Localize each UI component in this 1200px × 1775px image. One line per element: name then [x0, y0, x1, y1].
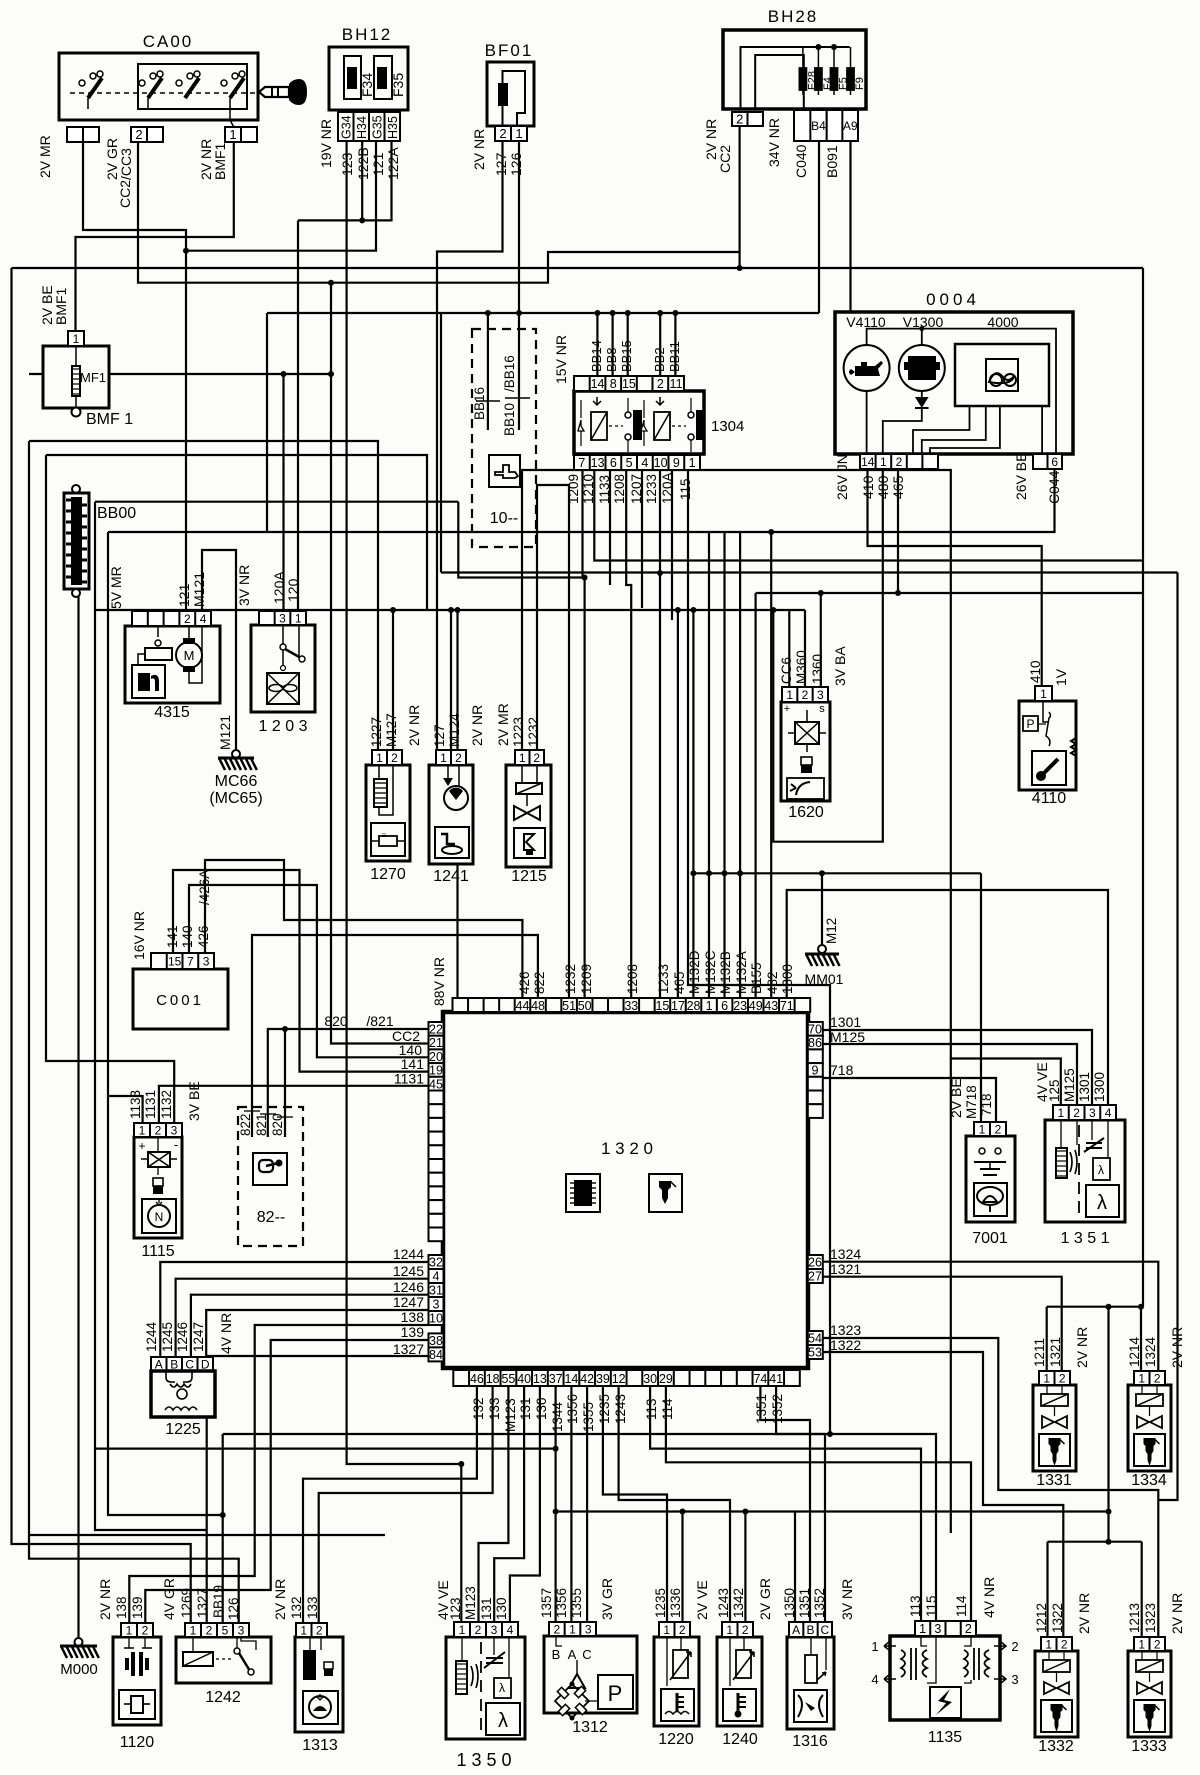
- wire ground bus MM01: [693, 872, 981, 874]
- svg-text:M132C: M132C: [703, 950, 718, 994]
- wire 133 to 1313 pin2: [319, 1386, 493, 1623]
- svg-text:1301: 1301: [1077, 1072, 1092, 1102]
- 1203 fan icon: [267, 673, 299, 704]
- wire 1304 top pin feed: [627, 313, 629, 376]
- key icon: [253, 1153, 287, 1185]
- svg-text:1: 1: [726, 1623, 733, 1637]
- wire 426 C001 to ECU pin44: [205, 860, 522, 998]
- svg-text:M121: M121: [217, 715, 233, 750]
- svg-text:132: 132: [289, 1596, 304, 1619]
- svg-text:71: 71: [780, 999, 794, 1013]
- svg-text:30: 30: [643, 1372, 657, 1386]
- wire M132A riser: [739, 532, 741, 998]
- wire 130 to 1350 pin4: [510, 1386, 540, 1622]
- svg-text:126: 126: [226, 1597, 241, 1620]
- wire drop to ECU top: [456, 610, 458, 998]
- svg-text:821: 821: [254, 1113, 269, 1136]
- wire 1209 line west: [95, 501, 458, 503]
- svg-text:718: 718: [979, 1093, 994, 1116]
- svg-text:1115: 1115: [141, 1243, 174, 1260]
- svg-text:4315: 4315: [154, 704, 190, 721]
- svg-text:A: A: [568, 1647, 577, 1662]
- instrument cluster 0004: [835, 312, 1073, 454]
- svg-text:39: 39: [596, 1372, 610, 1386]
- wire rail x29 to 1242 pin3 (126): [29, 441, 239, 1623]
- svg-text:2V NR: 2V NR: [1169, 1327, 1185, 1368]
- svg-text:120: 120: [285, 578, 301, 602]
- relay 1242: [176, 1637, 271, 1683]
- wire M124 1241 pin2 up: [450, 610, 452, 750]
- 1620 battery icon: [801, 757, 812, 765]
- svg-text:21: 21: [429, 1036, 443, 1050]
- connector icon: [489, 455, 520, 487]
- svg-text:51: 51: [562, 999, 576, 1013]
- svg-text:410: 410: [1028, 660, 1043, 683]
- svg-text:86: 86: [808, 1036, 822, 1050]
- svg-text:1336: 1336: [668, 1588, 683, 1618]
- svg-text:1352: 1352: [812, 1588, 827, 1618]
- svg-text:1334: 1334: [1131, 1472, 1167, 1489]
- 1241 oil icon: [435, 827, 469, 858]
- svg-text:1357: 1357: [539, 1588, 554, 1618]
- wire 120A 1203 pin3 up: [282, 374, 284, 611]
- svg-text:1244: 1244: [144, 1321, 159, 1352]
- svg-text:M123: M123: [463, 1586, 478, 1620]
- svg-text:7: 7: [578, 456, 585, 470]
- svg-text:126: 126: [508, 152, 524, 176]
- wire 465 riser ECU pin17: [677, 610, 679, 998]
- svg-text:27: 27: [808, 1270, 822, 1284]
- svg-text:H34: H34: [355, 116, 369, 139]
- svg-text:1: 1: [376, 751, 383, 765]
- wire 1342 1240 pin2 to bus: [744, 1512, 746, 1623]
- svg-text:BMF1: BMF1: [53, 287, 69, 325]
- 1304 bottom pin row: [574, 455, 700, 470]
- CA00 internal switches: [88, 78, 102, 98]
- 4110 P box: [1023, 716, 1038, 731]
- svg-text:BF01: BF01: [485, 41, 534, 60]
- svg-text:17: 17: [671, 999, 685, 1013]
- svg-text:1242: 1242: [205, 1689, 241, 1706]
- svg-text:1 3 2 0: 1 3 2 0: [601, 1139, 653, 1158]
- svg-text:139: 139: [401, 1324, 425, 1340]
- svg-text:2: 2: [965, 1622, 972, 1636]
- svg-text:480: 480: [875, 475, 891, 499]
- 4110 temp icon: [1032, 751, 1066, 785]
- svg-text:141: 141: [165, 925, 180, 948]
- svg-text:F35: F35: [390, 73, 406, 97]
- svg-text:1324: 1324: [1143, 1336, 1158, 1367]
- svg-text:4: 4: [200, 612, 207, 626]
- svg-text:1: 1: [1040, 687, 1047, 701]
- svg-text:1209: 1209: [579, 964, 594, 994]
- svg-text:A: A: [155, 1357, 163, 1371]
- wire 1233 from 1304 pin10: [659, 469, 661, 573]
- svg-text:9: 9: [673, 456, 680, 470]
- wire 139 ECU pin38 to 1120 pin2: [145, 1340, 428, 1623]
- svg-text:1316: 1316: [792, 1733, 828, 1750]
- svg-text:84: 84: [429, 1348, 443, 1362]
- svg-text:1321: 1321: [1048, 1337, 1063, 1367]
- svg-text:1: 1: [880, 455, 887, 469]
- wire rail x108 to 1242 pin5 (BB19): [108, 532, 223, 1623]
- 1241 diode: [443, 778, 453, 786]
- wire 1355 to 1312 pin3: [586, 1386, 588, 1622]
- 1135 transformer right: [964, 1650, 968, 1677]
- svg-text:3: 3: [1011, 1672, 1018, 1687]
- 1215 valve bowtie: [514, 806, 540, 820]
- svg-text:1233: 1233: [644, 474, 659, 504]
- svg-text:54: 54: [808, 1332, 822, 1346]
- svg-text:140: 140: [180, 925, 195, 948]
- svg-text:2: 2: [316, 1623, 323, 1637]
- svg-text:822: 822: [238, 1113, 253, 1136]
- fuse box BH28: [723, 30, 866, 109]
- svg-text:718: 718: [830, 1062, 854, 1078]
- wire B155 riser ECU pin49: [754, 593, 756, 998]
- svg-text:115: 115: [678, 478, 693, 500]
- svg-text:13: 13: [591, 456, 605, 470]
- wire 115 from 1304 pin1: [688, 469, 830, 1434]
- ground MM01 (M12): [818, 945, 826, 953]
- wire 1327 column to 1242 pin2: [206, 1356, 208, 1623]
- svg-text:1133: 1133: [128, 1090, 143, 1119]
- svg-text:1132: 1132: [159, 1090, 174, 1119]
- wire injector bus2: [1048, 1541, 1142, 1543]
- svg-text:1207: 1207: [629, 474, 644, 504]
- svg-text:1327: 1327: [195, 1588, 210, 1618]
- svg-text:115: 115: [924, 1595, 939, 1617]
- svg-text:M12: M12: [824, 918, 839, 944]
- svg-text:465: 465: [672, 971, 687, 994]
- injector 1331: [1033, 1385, 1076, 1471]
- svg-text:C040: C040: [793, 144, 809, 178]
- svg-text:4000: 4000: [987, 314, 1018, 330]
- 1220 icon coolant temp: [661, 1689, 694, 1721]
- svg-text:2: 2: [736, 112, 743, 127]
- svg-text:BB00: BB00: [97, 505, 136, 522]
- svg-text:131: 131: [518, 1397, 533, 1420]
- svg-text:133: 133: [487, 1397, 502, 1420]
- svg-text:BB15: BB15: [619, 340, 634, 372]
- 1312 P box: [598, 1675, 633, 1709]
- wire /821 ECU pin22: [268, 1029, 429, 1137]
- svg-text:1133: 1133: [597, 475, 612, 504]
- wire 465 down: [897, 469, 899, 593]
- svg-text:131: 131: [479, 1597, 494, 1620]
- wire y1535: [29, 1534, 385, 1536]
- svg-text:BB10: BB10: [502, 403, 517, 436]
- svg-text:40: 40: [517, 1372, 531, 1386]
- wire M132C riser: [708, 532, 710, 998]
- svg-text:5V MR: 5V MR: [108, 566, 124, 609]
- gauge icon: [986, 359, 1018, 391]
- svg-text:2V NR: 2V NR: [469, 705, 485, 746]
- svg-text:70: 70: [808, 1023, 822, 1037]
- wire 1300 ECU pin71 to 1351 pin4: [787, 890, 1108, 1105]
- svg-text:3: 3: [279, 611, 286, 625]
- 0004 pin row 6: [1033, 454, 1062, 469]
- svg-text:465: 465: [890, 475, 906, 499]
- wire CA00 pin1 to MF1 (2V NR BMF1): [76, 142, 234, 331]
- svg-text:6: 6: [1051, 455, 1058, 469]
- wire to 1332 pin1: [1046, 1542, 1048, 1651]
- svg-text:MF1: MF1: [80, 370, 106, 385]
- wire sensor bus y1511: [557, 1510, 1109, 1512]
- svg-text:16V NR: 16V NR: [131, 911, 147, 960]
- svg-text:BB16: BB16: [472, 387, 487, 420]
- diagnostic socket 7001: [966, 1136, 1015, 1222]
- 1215 icon: [514, 828, 545, 858]
- svg-text:3V NR: 3V NR: [839, 1579, 855, 1620]
- wire link y313-y532: [266, 313, 268, 532]
- wire 1246 to 1225 C: [191, 1295, 429, 1357]
- 1241 pump circle: [444, 786, 468, 810]
- 1351 heater: [1056, 1148, 1067, 1178]
- fuse box BF01: [487, 62, 534, 126]
- wire to 1334 pin1: [1140, 1307, 1142, 1371]
- svg-text:M000: M000: [60, 1661, 98, 1678]
- svg-text:1323: 1323: [830, 1322, 861, 1338]
- svg-text:3: 3: [585, 1622, 592, 1636]
- double relay 1304: [574, 391, 704, 454]
- svg-text:1220: 1220: [658, 1731, 694, 1748]
- 1135 spark icon: [930, 1687, 961, 1718]
- 4315 pin row 2 4: [132, 611, 211, 626]
- wire 822 ECU pin48 to 82-- box: [252, 935, 538, 1137]
- coolant temp sensor 1220: [654, 1637, 699, 1726]
- 1115 valve: [148, 1152, 170, 1167]
- wire M360 riser: [804, 610, 806, 687]
- wire 1304 top pin feed: [611, 313, 613, 376]
- svg-text:1135: 1135: [928, 1729, 963, 1746]
- svg-text:3: 3: [171, 1123, 178, 1137]
- svg-text:1241: 1241: [433, 868, 469, 885]
- svg-text:1 3 5 0: 1 3 5 0: [456, 1750, 511, 1770]
- wire 1207 stub: [641, 469, 643, 608]
- svg-text:1351: 1351: [754, 1394, 769, 1424]
- svg-text:15V NR: 15V NR: [553, 335, 569, 384]
- svg-text:G35: G35: [371, 115, 385, 139]
- svg-text:50: 50: [578, 999, 592, 1013]
- idle actuator 1115: [134, 1137, 182, 1238]
- svg-text:1244: 1244: [393, 1246, 424, 1262]
- svg-text:1: 1: [706, 999, 713, 1013]
- svg-text:19V NR: 19V NR: [318, 119, 334, 168]
- svg-text:1233: 1233: [656, 964, 671, 994]
- BF01 fuse loop: [503, 71, 526, 126]
- svg-text:113: 113: [908, 1595, 923, 1617]
- svg-text:1: 1: [229, 127, 236, 142]
- svg-text:BB8: BB8: [604, 347, 619, 372]
- svg-text:29: 29: [659, 1372, 673, 1386]
- svg-text:2V GR: 2V GR: [757, 1578, 773, 1620]
- 1304 top pin row: [574, 376, 684, 391]
- svg-text:1235: 1235: [653, 1588, 668, 1618]
- svg-text:1V: 1V: [1053, 668, 1069, 686]
- wire 114 to 1135 pin2: [666, 1386, 971, 1621]
- wire 1350 1316 A to bus: [794, 1512, 796, 1623]
- 4315 motor M: [176, 642, 202, 668]
- svg-text:1: 1: [1138, 1637, 1145, 1651]
- wire 1336 1220 pin2 to bus: [681, 1512, 683, 1623]
- wire 1356 to 1312 pin1: [570, 1386, 572, 1622]
- svg-text:1208: 1208: [625, 964, 640, 994]
- svg-text:1: 1: [871, 1639, 878, 1654]
- wire M125 ECU pin86 to 1351 pin2: [823, 1044, 1077, 1105]
- 7001 gauge icon: [974, 1183, 1007, 1216]
- svg-text:2: 2: [742, 1623, 749, 1637]
- svg-text:B155: B155: [749, 962, 764, 994]
- 0004 internal wiring: [867, 329, 1056, 454]
- svg-text:130: 130: [494, 1597, 509, 1620]
- wire 1352 ECU pin41 to 1316 C: [776, 1386, 825, 1622]
- svg-text:426: 426: [196, 925, 211, 948]
- svg-text:1356: 1356: [554, 1588, 569, 1618]
- svg-text:1327: 1327: [393, 1341, 424, 1357]
- svg-text:MM01: MM01: [805, 971, 844, 987]
- svg-text:2: 2: [499, 126, 506, 141]
- svg-text:3: 3: [817, 688, 824, 702]
- svg-text:482: 482: [765, 971, 780, 994]
- wire 820: [284, 1029, 286, 1137]
- wire 1235 to 1220 pin1: [603, 1386, 667, 1622]
- wire M132B riser: [723, 532, 725, 998]
- solenoid valve 1215: [506, 765, 551, 867]
- svg-text:11: 11: [670, 377, 683, 391]
- svg-text:49: 49: [749, 999, 763, 1013]
- svg-text:15: 15: [622, 377, 636, 391]
- svg-text:132: 132: [471, 1397, 486, 1420]
- svg-text:2V NR: 2V NR: [471, 129, 487, 170]
- fuse F34: [344, 56, 361, 99]
- BH28 internal bus: [741, 47, 850, 109]
- svg-text:1620: 1620: [788, 804, 824, 821]
- node BMF1: [72, 408, 81, 417]
- wire 482 ECU pin43 up: [770, 532, 772, 998]
- 1270 resistor icon: [371, 823, 405, 856]
- svg-text:P: P: [608, 1681, 623, 1706]
- wire BB00 to M000: [77, 593, 79, 1638]
- relay 1203: [251, 625, 315, 712]
- svg-text:/821: /821: [366, 1013, 393, 1029]
- wire BB19 column up: [222, 1434, 224, 1515]
- svg-text:1: 1: [459, 1623, 466, 1637]
- wire 718 ECU pin9 to 7001 pin2: [823, 1078, 996, 1122]
- svg-text:123: 123: [448, 1597, 463, 1620]
- wire 125 to 1351 pin1: [951, 1059, 1061, 1106]
- svg-text:113: 113: [644, 1398, 659, 1420]
- wire CC2 CA00 staircase: [138, 142, 740, 283]
- wire 120 from y220 to 1203 pin1: [297, 220, 299, 611]
- 1350 lambda icon: [486, 1703, 520, 1735]
- svg-text:2: 2: [995, 1122, 1002, 1136]
- svg-text:1332: 1332: [1038, 1738, 1074, 1755]
- svg-text:74: 74: [753, 1372, 767, 1386]
- svg-text:≡: ≡: [382, 831, 387, 840]
- svg-text:B: B: [806, 1623, 814, 1637]
- wire 1244 ECU pin32 to 1225 A: [160, 1262, 428, 1357]
- svg-text:43: 43: [764, 999, 778, 1013]
- svg-text:A9: A9: [843, 119, 858, 133]
- throttle housing 1350: [446, 1637, 525, 1739]
- wire 138 ECU pin10 to 1120 pin1: [129, 1325, 428, 1623]
- svg-text:38: 38: [429, 1334, 443, 1348]
- svg-text:121: 121: [176, 583, 192, 607]
- ECU bottom pin row: [453, 1370, 800, 1386]
- svg-text:1269: 1269: [179, 1588, 194, 1618]
- ECU 1320: [443, 1012, 808, 1368]
- knock sensor 1316: [787, 1637, 834, 1729]
- svg-text:121: 121: [370, 152, 386, 176]
- A/C unit 1620: [781, 702, 830, 801]
- svg-text:1323: 1323: [1143, 1603, 1158, 1633]
- canister purge valve 1313: [295, 1637, 343, 1732]
- svg-text:1 3 5 1: 1 3 5 1: [1061, 1230, 1110, 1247]
- svg-text:1246: 1246: [175, 1322, 190, 1352]
- wire injector bus1: [1047, 1306, 1143, 1308]
- injector 1334: [1128, 1385, 1171, 1471]
- wire 1322 ECU pin53 to 1332 pin2: [823, 1352, 1064, 1651]
- wire 1209 riser ECU pin50: [583, 578, 585, 999]
- svg-text:45: 45: [429, 1077, 443, 1091]
- svg-text:V4110: V4110: [846, 314, 886, 330]
- svg-text:1313: 1313: [302, 1737, 338, 1754]
- 1220 thermistor: [673, 1650, 688, 1678]
- ignition key icon: [259, 87, 289, 97]
- svg-text:3: 3: [1089, 1106, 1096, 1120]
- svg-text:λ: λ: [1098, 1163, 1104, 1177]
- wire 120A down: [671, 469, 673, 620]
- svg-text:1: 1: [689, 456, 696, 470]
- svg-text:/BB16: /BB16: [502, 355, 517, 392]
- wire to 1333 pin1: [1141, 1542, 1143, 1651]
- svg-text:M718: M718: [964, 1085, 979, 1119]
- svg-text:1351: 1351: [797, 1588, 812, 1618]
- svg-text:1223: 1223: [511, 717, 526, 747]
- svg-text:C: C: [820, 1623, 829, 1637]
- fuse box BH12: [329, 47, 408, 110]
- svg-text:+: +: [138, 1139, 145, 1153]
- 4110 sawtooth: [1071, 738, 1076, 756]
- svg-text:1240: 1240: [722, 1731, 758, 1748]
- wire M121 4315 pin4 to MC66 ground: [202, 550, 236, 754]
- fuel gauge sender 1225: [151, 1357, 213, 1371]
- CA00 connector 2 (CC2): [131, 127, 163, 142]
- svg-text:1211: 1211: [1032, 1338, 1047, 1367]
- svg-text:2: 2: [1061, 1637, 1068, 1651]
- wire 127 BF01 to 1241 pin1: [437, 141, 503, 750]
- wire 480 U-turn to y610: [773, 469, 883, 842]
- wire 1304 top pin feed: [659, 313, 661, 376]
- svg-text:4V NR: 4V NR: [981, 1577, 997, 1618]
- svg-text:14: 14: [591, 377, 605, 391]
- wire M718 bus to 7001 pin1: [980, 873, 982, 1122]
- svg-text:33: 33: [624, 999, 638, 1013]
- wire 1245 to 1225 B: [176, 1279, 429, 1357]
- svg-text:1247: 1247: [393, 1294, 424, 1310]
- wire CC2 to ECU pin21: [331, 283, 429, 1044]
- 1203 pin row 3 1: [259, 611, 306, 625]
- svg-text:4: 4: [1105, 1106, 1112, 1120]
- svg-text:2: 2: [533, 751, 540, 765]
- wire right rail x1177: [1158, 573, 1177, 1501]
- svg-text:1355: 1355: [581, 1402, 596, 1432]
- connector C001: [133, 969, 228, 1029]
- svg-text:18: 18: [486, 1372, 500, 1386]
- wire 1233 riser ECU pin15: [659, 573, 661, 998]
- wire 1344/1357 to 1312 pin2: [554, 1386, 556, 1622]
